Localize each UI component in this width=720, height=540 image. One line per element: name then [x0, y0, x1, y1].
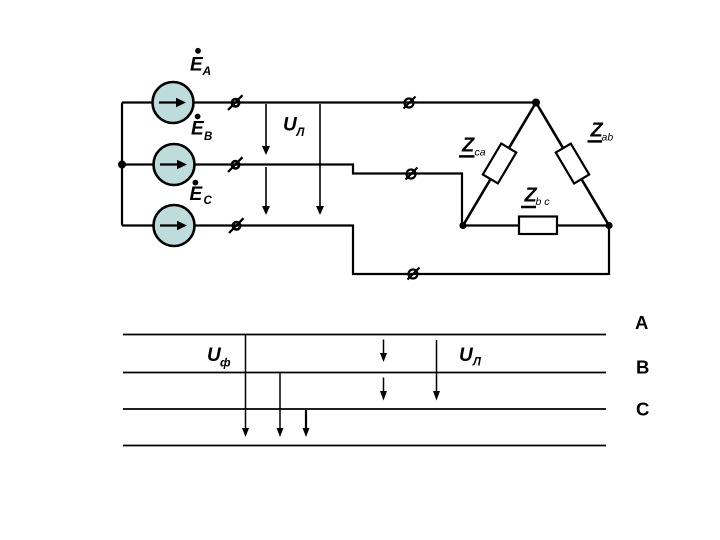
label EA	[190, 48, 211, 78]
impedance Zbc	[519, 217, 557, 235]
wire phase C	[122, 226, 609, 275]
node bus junction	[118, 161, 126, 169]
svg-text:A: A	[635, 312, 648, 333]
switch phase B	[228, 157, 243, 172]
svg-text:B: B	[204, 131, 212, 143]
svg-text:Z: Z	[461, 135, 475, 157]
svg-text:E: E	[190, 184, 204, 205]
node apex a	[532, 99, 540, 107]
svg-text:E: E	[191, 119, 205, 140]
label EB	[191, 114, 212, 143]
node vertex c	[459, 222, 466, 229]
arrow Ua phase	[242, 335, 249, 437]
line diagram N	[123, 445, 606, 447]
node vertex b	[605, 222, 612, 229]
delta side ab wire	[536, 103, 609, 226]
switch phase C	[229, 218, 244, 233]
switch phase A	[228, 95, 243, 110]
svg-text:ca: ca	[475, 147, 486, 159]
svg-text:C: C	[636, 399, 649, 420]
line diagram C	[123, 408, 606, 410]
line diagram A	[123, 334, 606, 336]
svg-text:B: B	[636, 357, 649, 378]
svg-text:U: U	[459, 345, 474, 366]
svg-text:b c: b c	[536, 196, 551, 208]
label Zca	[459, 135, 486, 159]
impedance Zab	[556, 144, 589, 184]
arrow UBC	[262, 167, 270, 215]
breaker symbol phase B	[406, 168, 418, 180]
svg-text:Л: Л	[472, 357, 482, 369]
arrow UAB	[262, 104, 270, 155]
label UL bottom	[459, 345, 482, 369]
wire left bus	[121, 103, 123, 226]
line diagram B	[123, 372, 606, 374]
label Zab	[588, 120, 614, 144]
arrow Uac line	[433, 340, 440, 401]
arrow Ubc line	[380, 378, 387, 401]
svg-text:ф: ф	[220, 356, 231, 370]
wire phase A	[122, 101, 536, 103]
breaker symbol phase C	[408, 268, 420, 280]
arrow Ub phase	[277, 374, 284, 438]
wire phase B	[122, 165, 462, 226]
label EC	[190, 180, 213, 207]
svg-text:Л: Л	[296, 127, 306, 139]
arrow UAC	[316, 104, 324, 215]
source EB	[154, 144, 195, 185]
breaker symbol phase A	[404, 97, 416, 109]
source EC	[154, 205, 195, 246]
svg-text:C: C	[204, 195, 213, 207]
label Zbc	[521, 185, 550, 209]
impedance Zca	[483, 144, 516, 184]
arrow Uab line	[380, 340, 387, 363]
source EA	[153, 82, 194, 123]
svg-text:A: A	[202, 64, 212, 78]
label Uf	[207, 345, 231, 370]
delta side ca wire	[463, 103, 536, 226]
svg-text:ab: ab	[602, 132, 614, 144]
label UL top	[283, 114, 306, 139]
delta side bc wire	[463, 224, 609, 226]
arrow Uc phase	[303, 410, 310, 437]
